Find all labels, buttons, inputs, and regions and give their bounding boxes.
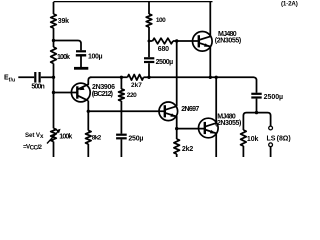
svg-text:=VCC/2: =VCC/2 bbox=[23, 144, 43, 152]
svg-text:100: 100 bbox=[156, 17, 166, 24]
svg-text:10k: 10k bbox=[247, 136, 259, 143]
svg-text:220: 220 bbox=[127, 92, 137, 99]
svg-text:680: 680 bbox=[158, 46, 169, 53]
svg-text:8k2: 8k2 bbox=[92, 134, 102, 141]
svg-text:(2N3055): (2N3055) bbox=[215, 120, 241, 127]
svg-text:Set Vx: Set Vx bbox=[25, 132, 44, 140]
svg-text:Ef/u: Ef/u bbox=[4, 75, 15, 84]
svg-text:39k: 39k bbox=[58, 18, 69, 25]
svg-text:100k: 100k bbox=[57, 54, 70, 61]
svg-text:2N3906: 2N3906 bbox=[92, 84, 115, 91]
svg-text:LS (8Ω): LS (8Ω) bbox=[267, 135, 291, 142]
svg-text:(1·2A): (1·2A) bbox=[281, 1, 298, 8]
svg-text:(2N3055): (2N3055) bbox=[215, 38, 241, 45]
svg-text:2500µ: 2500µ bbox=[156, 59, 174, 66]
svg-text:100k: 100k bbox=[59, 134, 72, 141]
svg-text:2N697: 2N697 bbox=[181, 106, 199, 113]
svg-text:2500µ: 2500µ bbox=[264, 94, 284, 101]
svg-text:(BC212): (BC212) bbox=[92, 91, 113, 98]
svg-text:2k7: 2k7 bbox=[131, 82, 142, 89]
svg-text:2k2: 2k2 bbox=[182, 146, 193, 153]
svg-text:500n: 500n bbox=[31, 84, 44, 91]
svg-text:100µ: 100µ bbox=[88, 54, 103, 61]
svg-text:250µ: 250µ bbox=[128, 136, 143, 143]
